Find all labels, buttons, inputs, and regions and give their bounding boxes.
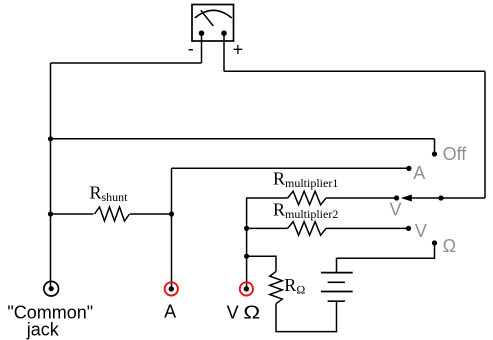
battery B1 plate long 2: [321, 291, 353, 293]
wire A row horizontal: [172, 167, 409, 169]
svg-text:-: -: [188, 39, 194, 59]
svg-text:Off: Off: [443, 144, 468, 164]
meter needle: [201, 10, 213, 26]
battery B1 plate short bottom: [328, 300, 345, 302]
jack Common center dot: [49, 286, 54, 291]
wire wiper feed: [403, 197, 485, 199]
battery B1 plate long top: [321, 272, 353, 274]
wire shunt right: [130, 213, 172, 215]
junction multiplier2 left: [244, 226, 249, 231]
wire top left horizontal: [51, 62, 202, 64]
switch position A contact: [406, 166, 411, 171]
svg-text:Ω: Ω: [243, 302, 260, 322]
junction common/shunt: [48, 211, 53, 216]
svg-text:Ω: Ω: [443, 236, 456, 256]
jack Common ring: [44, 281, 59, 296]
wire right vertical: [484, 71, 486, 198]
resistor R_multiplier1: [288, 191, 327, 205]
jack A ring: [165, 282, 178, 295]
jack V/Ohm center dot: [244, 286, 249, 291]
svg-text:V: V: [415, 221, 427, 241]
wire multiplier1 left corner: [247, 198, 288, 289]
jack A center dot: [169, 286, 174, 291]
wire multiplier2 right: [326, 227, 408, 229]
switch wiper arrowhead: [401, 195, 412, 202]
svg-text:jack: jack: [26, 320, 60, 340]
meter terminal - dot: [199, 30, 205, 36]
wire multiplier2 left: [247, 227, 288, 229]
meter scale arc: [195, 10, 232, 18]
svg-text:Rmultiplier1: Rmultiplier1: [273, 168, 338, 190]
wire common vertical: [50, 63, 52, 289]
switch position Off contact: [432, 151, 437, 156]
switch position V2 contact: [406, 226, 411, 231]
wire A vertical: [171, 168, 173, 289]
wire ohm branch top: [247, 256, 276, 271]
svg-text:+: +: [233, 40, 244, 60]
wire multiplier1 right: [326, 197, 397, 199]
wire meter - down: [201, 33, 203, 63]
switch position Omega contact: [432, 240, 437, 245]
wire off horizontal: [51, 138, 435, 140]
jack V/Ohm ring: [240, 282, 253, 295]
wire shunt left: [51, 213, 94, 215]
battery B1 plate short 1: [328, 281, 345, 283]
svg-text:RΩ: RΩ: [284, 275, 305, 297]
meter terminal + dot: [221, 30, 227, 36]
wire meter + down: [223, 33, 225, 71]
wire ohm branch bottom: [276, 301, 337, 331]
switch position V1 contact: [394, 195, 399, 200]
meter M1 box: [192, 5, 234, 42]
wire off vertical: [434, 139, 436, 154]
junction ohm branch: [244, 254, 249, 259]
resistor R_shunt: [95, 207, 130, 221]
svg-text:Rmultiplier2: Rmultiplier2: [273, 200, 338, 222]
svg-text:V: V: [227, 302, 239, 322]
resistor R_multiplier2: [288, 222, 327, 236]
junction wiper pivot: [438, 195, 443, 200]
svg-text:Rshunt: Rshunt: [90, 182, 129, 204]
junction A/shunt: [169, 211, 174, 216]
svg-text:V: V: [390, 200, 402, 220]
svg-text:A: A: [413, 163, 425, 183]
wire top right horizontal: [224, 70, 485, 72]
junction node common/off: [48, 136, 53, 141]
resistor R_ohm: [270, 272, 283, 304]
svg-text:A: A: [164, 302, 176, 322]
wire battery top to omega contact: [337, 243, 435, 273]
